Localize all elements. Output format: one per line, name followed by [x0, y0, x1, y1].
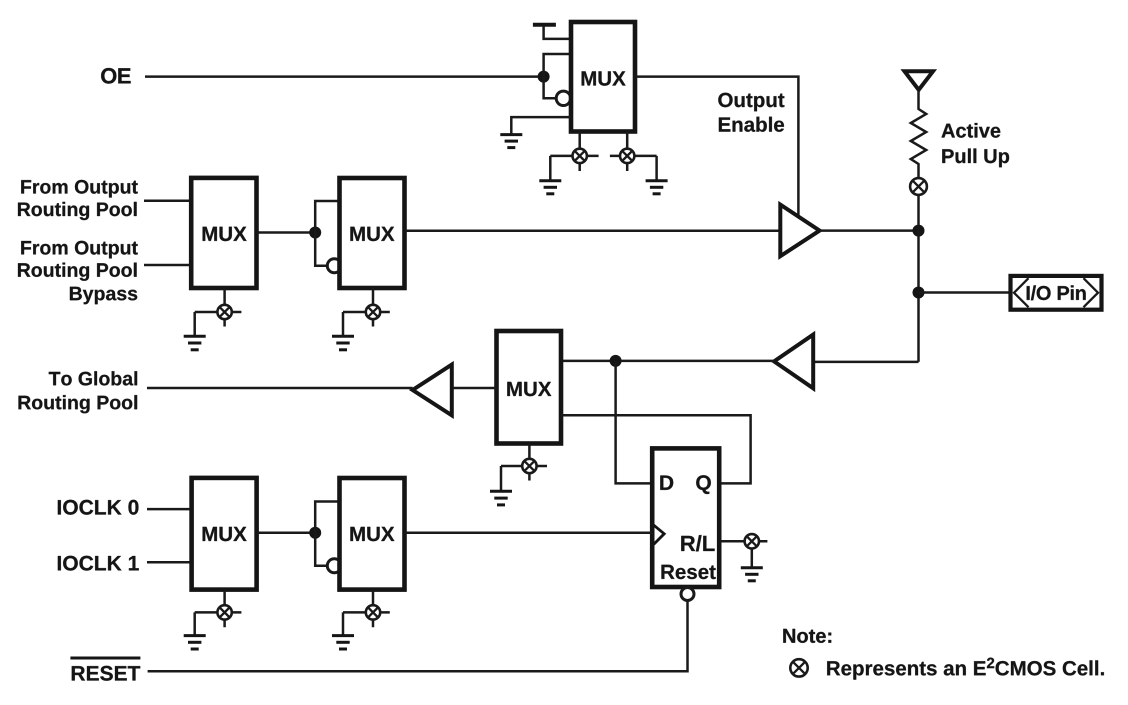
clock chevron — [654, 525, 664, 544]
node U2 output junction — [309, 227, 321, 239]
wire U6 output — [257, 532, 316, 535]
wire branch down to U3 inverted input — [315, 233, 327, 266]
label Q — [696, 475, 711, 494]
wire pull up to junction — [917, 195, 920, 231]
wire buffer output to pin net — [820, 229, 919, 232]
wire OE inverted branch — [544, 77, 557, 99]
wire U4 bottom stub — [528, 444, 531, 481]
wire branch up to U7 — [315, 502, 339, 533]
mux U7 clock invert MUX — [340, 478, 405, 590]
wire U4 output to GRP buffer — [452, 387, 497, 390]
E2CMOS cell under U2 — [217, 305, 231, 319]
wire through right cell to ground — [610, 156, 657, 181]
label R/L — [681, 535, 714, 551]
pullup T-bar symbol above top MUX — [533, 25, 571, 39]
wire top MUX bottom stub right — [626, 132, 629, 172]
node D feedback junction — [610, 355, 622, 367]
label RESET with overline — [70, 658, 140, 681]
mux U4 feedback MUX — [497, 331, 562, 444]
node U6 output junction — [309, 527, 321, 539]
wire U2 bottom stub — [223, 288, 226, 327]
E2CMOS cell under U3 — [366, 305, 380, 319]
E2CMOS cell under U6 — [217, 605, 231, 619]
flip-flop U5 — [652, 448, 719, 587]
wire pin net to input buffer — [813, 361, 918, 364]
wire through U4 cell to ground — [501, 466, 547, 491]
mux U1 output enable MUX — [571, 22, 635, 132]
E2CMOS cell on R/L — [745, 534, 759, 548]
reset bubble — [681, 588, 694, 601]
wire output enable net — [635, 77, 798, 216]
label D — [660, 476, 673, 490]
wire top MUX bottom stub left — [578, 132, 581, 172]
wire through U3 cell to ground — [343, 312, 390, 336]
ground below OE mux left input — [500, 135, 522, 148]
wire pin net vertical — [917, 231, 920, 362]
node OE junction — [538, 71, 550, 83]
vcc triangle of active pull up — [905, 71, 934, 90]
label Represents an E2CMOS Cell. — [827, 658, 1104, 680]
wire reset net — [148, 601, 688, 672]
ground under U2 cell — [184, 336, 206, 350]
wire U3 bottom stub — [372, 288, 375, 327]
label Note: — [783, 629, 831, 643]
wire input buffer output — [561, 360, 774, 363]
wire R/L to cell — [719, 540, 767, 543]
GRP buffer — [413, 365, 452, 416]
ground under R/L cell — [741, 568, 763, 581]
label Active Pull Up — [942, 123, 1010, 167]
ground under U7 cell — [332, 636, 354, 649]
ground under U4 cell — [490, 491, 512, 505]
tristate output buffer — [780, 205, 819, 257]
ground under U3 cell — [332, 336, 354, 350]
wire ORP input 1 — [144, 199, 191, 202]
wire through left cell to ground — [550, 156, 598, 181]
ground under U6 cell — [184, 636, 206, 649]
wire ground input of top MUX — [511, 117, 571, 135]
mux U6 IOCLK MUX — [192, 478, 257, 590]
label IOCLK 0 — [58, 500, 139, 515]
label Reset — [661, 565, 715, 579]
wire IOCLK0 input — [147, 508, 192, 511]
E2CMOS cell under top MUX left — [573, 149, 587, 163]
label From Output Routing Pool — [18, 180, 138, 220]
wire through U7 cell to ground — [343, 612, 390, 635]
wire branch down to U7 inverted input — [315, 533, 327, 566]
wire U7 output to FF clock — [405, 532, 653, 535]
E2CMOS cell under U4 — [522, 459, 536, 473]
mux U2 output routing pool MUX — [191, 178, 256, 288]
wire R/L cell to ground — [751, 549, 754, 568]
label From Output Routing Pool Bypass — [18, 241, 138, 304]
mux U3 bypass MUX — [340, 178, 405, 288]
wire U2 output — [257, 231, 316, 234]
wire branch up to U3 — [315, 201, 339, 233]
wire OE true branch into MUX — [544, 54, 571, 77]
wire through U2 cell to ground — [195, 312, 242, 336]
node pin net top junction — [913, 225, 925, 237]
E2CMOS legend symbol — [790, 659, 807, 676]
wire U6 bottom stub — [223, 590, 226, 628]
wire U7 bottom stub — [372, 590, 375, 628]
ground under left cell — [539, 181, 561, 194]
label Output Enable — [718, 93, 784, 132]
wire ORP input 2 — [144, 264, 191, 267]
wire OE horizontal — [145, 75, 544, 78]
label IOCLK 1 — [58, 556, 139, 571]
wire IOCLK1 input — [147, 561, 192, 564]
wire D input path — [616, 361, 653, 484]
input buffer — [774, 335, 813, 389]
E2CMOS cell under U7 — [366, 605, 380, 619]
inverter bubble on U7 input — [327, 559, 341, 573]
E2CMOS cell under top MUX right — [620, 149, 634, 163]
I/O Pin symbol — [1011, 276, 1102, 310]
ground under right cell — [646, 181, 668, 194]
E2CMOS cell on pull up — [910, 178, 927, 195]
label OE — [101, 68, 131, 84]
wire through U6 cell to ground — [195, 612, 242, 635]
resistor active pull up — [911, 90, 926, 178]
wire to I/O pin — [919, 291, 1010, 294]
wire U4 lower input from Q — [561, 415, 751, 483]
node I/O pin junction — [913, 287, 925, 299]
wire U3 output to tristate buffer — [405, 229, 781, 232]
label To Global Routing Pool — [19, 371, 138, 413]
inverter bubble on top MUX input — [556, 91, 570, 105]
wire to global routing pool — [147, 387, 413, 390]
inverter bubble on U3 input — [327, 259, 341, 273]
